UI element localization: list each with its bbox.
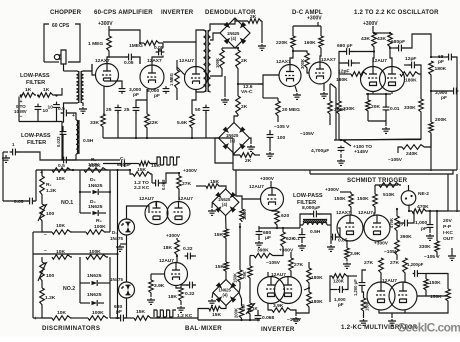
tube V2 12AX7 — [140, 65, 164, 89]
tube V5 12AX7 (dc amp) — [309, 62, 331, 84]
svg-text:20V: 20V — [443, 218, 452, 224]
capacitor 0.05 (stage2) — [154, 43, 164, 55]
tube V4 12AX7 (dc amp) — [279, 65, 301, 87]
capacitor 0.05 (lpf out) — [331, 225, 348, 244]
svg-text:18K: 18K — [168, 294, 177, 300]
svg-text:D₁: D₁ — [112, 230, 117, 235]
svg-text:5.6K: 5.6K — [177, 120, 188, 126]
label 0.033 capacitor — [56, 130, 66, 147]
svg-text:12AU7: 12AU7 — [358, 210, 373, 216]
wire T3 primary top — [196, 30, 204, 42]
svg-text:INVERTER: INVERTER — [261, 326, 295, 333]
wire V1 grid from T1 — [92, 64, 96, 75]
svg-text:+300V: +300V — [260, 176, 275, 182]
resistor 510K — [379, 183, 401, 198]
svg-text:100K: 100K — [88, 162, 100, 168]
wire chopper to transformer — [63, 64, 65, 71]
capacitor 10 (schmidt) — [397, 211, 414, 227]
wire disc1 bottom — [33, 222, 110, 232]
ground bridge1 — [208, 202, 216, 215]
tube V3 12AU7 (inverter top) — [185, 67, 208, 90]
label LOW-PASS FILTER (right) — [293, 193, 323, 211]
label +300V (mixer2) — [166, 233, 181, 239]
resistor 15K (mixer in) — [133, 167, 152, 176]
svg-text:330K: 330K — [419, 244, 431, 250]
label 12AX7 V4 — [276, 59, 291, 65]
svg-text:470K: 470K — [389, 218, 394, 228]
svg-text:1MEG: 1MEG — [129, 43, 143, 49]
svg-text:0.033: 0.033 — [56, 136, 61, 147]
wire disc input top — [36, 169, 130, 171]
wire bridge2 left rail — [215, 138, 233, 170]
choke 0.5H (lpf) — [303, 220, 327, 236]
wire mv right mesh — [405, 274, 448, 314]
svg-text:LOW-PASS: LOW-PASS — [293, 193, 323, 199]
capacitor 100 (dc filter) — [267, 130, 286, 141]
resistor 3.9K (V8 cathode) — [149, 274, 165, 294]
tube V6 12AU7 oscillator (dual) — [361, 67, 405, 92]
resistor 27K (inv2) — [289, 252, 304, 272]
ground V4 cathode — [293, 86, 301, 99]
wire schmidt plates — [351, 208, 375, 216]
wire disc2 top — [33, 253, 118, 255]
resistor 180K (osc right edge) — [429, 61, 447, 76]
svg-text:1N625: 1N625 — [88, 204, 103, 210]
label 12AX7 V1 — [95, 58, 110, 64]
capacitor 3000pF — [119, 86, 142, 98]
svg-text:−: − — [44, 248, 47, 254]
bridge rectifier 1N625 (lower) — [219, 123, 250, 154]
photocell D1 1N475 (upper) — [110, 219, 135, 241]
capacitor 4700pF — [311, 146, 344, 154]
wire demod to dc-amp — [238, 84, 336, 140]
ground demod upper — [258, 21, 266, 50]
svg-text:+300V: +300V — [183, 168, 198, 174]
resistor 100K (disc2 top) — [86, 249, 108, 259]
label 12AU7 osc — [372, 58, 387, 64]
resistor 2K (bridge2 bottom) — [234, 153, 260, 164]
svg-text:I-KC: I-KC — [443, 230, 454, 236]
wire inv2 bottom — [198, 319, 260, 321]
svg-text:1N475: 1N475 — [110, 277, 123, 282]
capacitor 680pF (osc left) — [337, 43, 375, 63]
svg-text:1K: 1K — [25, 87, 32, 93]
capacitor 8000pF (lpf) — [310, 211, 321, 218]
resistor 470K (schmidt h) — [408, 204, 448, 213]
svg-text:4,700μF: 4,700μF — [311, 148, 329, 154]
resistor 330K (osc left tail) — [337, 101, 355, 140]
resistor 15K (bridge2 bottom) — [198, 306, 226, 321]
svg-text:R₁: R₁ — [46, 182, 52, 188]
resistor 360K (V5 out) — [328, 84, 346, 115]
tube V10 schmidt (dual) — [337, 215, 390, 241]
svg-text:20 MEG: 20 MEG — [282, 107, 300, 113]
capacitor 0.22 (lower) — [181, 282, 196, 297]
wire T1 secondary top lead — [83, 64, 92, 71]
svg-text:12AU7: 12AU7 — [372, 58, 387, 64]
ground photocell mid — [116, 244, 127, 251]
svg-text:100: 100 — [46, 211, 54, 217]
svg-text:−105 V: −105 V — [424, 254, 440, 260]
resistor 180K (inv2 right top) — [307, 262, 323, 284]
wire demod junction — [235, 48, 239, 96]
svg-text:10K: 10K — [56, 223, 65, 229]
ground V5 cathode — [320, 84, 328, 99]
wire chopper bottom — [44, 50, 80, 62]
wire T3 primary bottom — [196, 89, 204, 92]
resistor 240K — [402, 134, 431, 157]
svg-text:22K: 22K — [149, 120, 158, 126]
svg-text:15K: 15K — [215, 264, 224, 270]
capacitor 0.22 (upper) — [183, 246, 196, 259]
svg-text:150K: 150K — [429, 280, 441, 286]
svg-text:1N625: 1N625 — [87, 292, 102, 298]
ground lower-left — [2, 155, 10, 162]
resistor 43K (osc left) — [361, 33, 376, 48]
svg-text:240K: 240K — [406, 151, 418, 157]
wire mixer bottom bus — [115, 317, 198, 319]
label INVERTER (bottom) — [261, 326, 295, 333]
ground 680pF inv — [255, 237, 263, 247]
resistor 15K (bridge1 top) — [196, 179, 226, 189]
capacitor 25 (V2 cathode) — [124, 105, 139, 114]
wire inv2 out — [287, 288, 309, 323]
svg-text:−105V: −105V — [300, 131, 315, 137]
svg-text:300K: 300K — [300, 59, 305, 69]
svg-text:D₂: D₂ — [90, 177, 96, 183]
svg-text:1.2K: 1.2K — [46, 188, 57, 194]
svg-text:100K: 100K — [215, 58, 220, 68]
svg-text:1.2K: 1.2K — [45, 295, 56, 301]
svg-text:R₃: R₃ — [96, 218, 102, 224]
wire photocell1 leads — [127, 206, 150, 244]
label SCHMIDT TRIGGER — [347, 177, 408, 184]
wire T3 sec top to bridge — [210, 21, 235, 30]
svg-text:0.22: 0.22 — [183, 246, 193, 252]
label output 20V P-P 1-KC OUT — [443, 218, 454, 242]
resistor 100K (disc1 top right) — [84, 162, 108, 172]
capacitor 680pF (osc right) — [389, 34, 431, 57]
diode D2 1N625 — [80, 177, 110, 195]
svg-text:12AX7: 12AX7 — [147, 58, 162, 64]
label - disc2 — [44, 248, 47, 254]
ground 4700pF — [337, 154, 345, 165]
label 12AU7 (mixer lower) — [159, 258, 174, 264]
capacitor 0.1 (lpf shunt1) — [293, 228, 305, 242]
capacitor 0.05 (V1 out) — [107, 54, 140, 66]
svg-text:120K: 120K — [333, 279, 345, 284]
svg-text:−: − — [44, 232, 47, 238]
squarewave icon (1.2 KC) — [154, 310, 193, 319]
neon NE-2 — [401, 185, 429, 205]
resistor 5.6K (V3 cathode) — [177, 114, 194, 129]
svg-text:680pF: 680pF — [391, 39, 405, 45]
svg-text:SCHMIDT TRIGGER: SCHMIDT TRIGGER — [347, 177, 408, 184]
label +300V (amp) — [98, 21, 113, 27]
chopper vibrator contact — [54, 50, 66, 64]
svg-text:−105V: −105V — [384, 249, 399, 255]
svg-text:VA-C: VA-C — [241, 89, 253, 95]
resistor 2K (lower mid) — [236, 96, 248, 116]
resistor 18K (mixer2 plate) — [163, 238, 179, 256]
label -105V (dc) — [274, 117, 290, 130]
resistor 150K (mv right 1) — [424, 274, 441, 292]
resistor 160K (V5 plate) — [304, 36, 323, 49]
label +100 TO +145V — [342, 140, 372, 155]
resistor 10K (disc2 top) — [52, 249, 72, 259]
label 12AU7 schmidt — [358, 210, 373, 216]
svg-text:100: 100 — [241, 303, 246, 311]
pot 1K (inv2) — [241, 303, 259, 320]
ground inv2 cathode — [292, 313, 300, 323]
svg-text:P-P: P-P — [443, 224, 452, 230]
svg-text:15K: 15K — [136, 309, 145, 315]
svg-text:470K: 470K — [417, 204, 429, 210]
svg-text:−: − — [20, 114, 23, 120]
svg-text:180K: 180K — [405, 78, 417, 84]
svg-text:(4): (4) — [223, 293, 229, 298]
svg-text:0.05: 0.05 — [124, 60, 134, 66]
capacitor 3900pF — [430, 88, 459, 101]
svg-text:620: 620 — [281, 213, 289, 219]
wire amp lower rail — [62, 159, 120, 161]
svg-text:DISCRIMINATORS: DISCRIMINATORS — [42, 325, 100, 332]
photocell 1N475 (lower) — [110, 277, 135, 298]
svg-text:−105V: −105V — [266, 260, 281, 266]
svg-text:0.5: 0.5 — [58, 106, 65, 112]
svg-text:NO.1: NO.1 — [61, 200, 73, 206]
svg-text:100K: 100K — [89, 249, 101, 255]
resistor 1K (input LPF first) — [20, 87, 36, 97]
svg-text:25: 25 — [124, 107, 130, 113]
svg-text:+300V: +300V — [307, 16, 322, 22]
label NO.2 — [63, 286, 75, 292]
svg-text:OUT: OUT — [443, 236, 453, 242]
label CHOPPER — [50, 9, 82, 16]
label 12AU7 V3 — [179, 58, 194, 64]
svg-text:27K: 27K — [182, 181, 191, 187]
svg-text:75K: 75K — [242, 271, 247, 279]
wire input bottom rail — [19, 97, 62, 122]
resistor 620 (V9 cathode) — [272, 211, 289, 227]
capacitor 680pF (bottom) — [114, 304, 134, 321]
wire inverter top +300 — [260, 176, 275, 188]
label -105V inv — [266, 248, 283, 266]
svg-text:+300V: +300V — [363, 21, 378, 27]
ground mv left — [360, 312, 368, 325]
svg-text:680 pF: 680 pF — [337, 43, 353, 49]
label D-C AMPL — [292, 9, 323, 16]
label +300V (mixer) — [183, 168, 198, 174]
label + disc1 — [40, 170, 43, 176]
svg-text:0.1: 0.1 — [293, 236, 300, 242]
bridge 1N625 bal-mixer lower — [213, 272, 239, 306]
resistor 300K (coupling) — [292, 50, 309, 69]
svg-text:+: + — [34, 316, 37, 322]
wire photocell2 leads — [126, 244, 128, 318]
capacitor 12pF (osc fb right) — [404, 56, 421, 74]
svg-text:150K: 150K — [242, 210, 247, 220]
wire V2 cathode — [136, 89, 147, 114]
label 60-CPS AMPLIFIER — [94, 9, 153, 16]
resistor 20 MEG (feedback) — [263, 98, 300, 117]
svg-text:FILTER: FILTER — [26, 80, 45, 86]
wire amp bottom bus — [103, 112, 233, 139]
resistor 180K (inv2 right bottom) — [307, 284, 323, 308]
ground schmidt cap — [426, 230, 434, 241]
label LOW-PASS FILTER (input) — [20, 73, 50, 86]
label 1 MEG vertical (V3 grid) — [169, 70, 179, 90]
label LOW-PASS FILTER (second) — [21, 133, 51, 146]
wire 620 to LPF — [259, 226, 300, 229]
svg-text:60-CPS AMPLIFIER: 60-CPS AMPLIFIER — [94, 9, 153, 16]
svg-text:12AU7: 12AU7 — [179, 58, 194, 64]
svg-text:390K: 390K — [400, 234, 412, 240]
label 1.2-KC MULTIVIBRATOR — [341, 324, 418, 331]
resistor 150K (inv grid) — [240, 203, 247, 222]
wire V5 plate grid — [307, 49, 321, 73]
svg-text:20K: 20K — [371, 104, 380, 110]
svg-text:μF: μF — [265, 235, 271, 241]
svg-text:18K: 18K — [163, 245, 172, 251]
label + disc2 — [34, 316, 37, 322]
svg-text:100K: 100K — [94, 224, 106, 230]
resistor 15K (mid lower) — [215, 239, 228, 272]
ground lpf shunt2 — [327, 237, 335, 251]
svg-text:1,200pF: 1,200pF — [407, 262, 424, 267]
svg-text:27K: 27K — [294, 262, 303, 268]
pot 100 (disc2) — [38, 257, 54, 282]
svg-text:150K: 150K — [334, 196, 346, 202]
svg-text:0.05: 0.05 — [14, 199, 24, 205]
wire long bus y173 right — [310, 170, 453, 174]
svg-text:43K: 43K — [377, 36, 386, 42]
wire disc2 bottom — [33, 306, 88, 318]
svg-text:25: 25 — [106, 107, 112, 113]
ground lpf shunt1 — [298, 240, 306, 250]
wire +300V drop — [109, 26, 140, 42]
label +300V schmidt — [325, 185, 398, 194]
label 12AX7 V2 — [147, 58, 162, 64]
label NO.1 — [61, 200, 73, 206]
resistor 1.2K (disc2) — [40, 282, 56, 306]
wire V1 plate — [107, 52, 109, 64]
wire long bus y170 — [233, 169, 457, 171]
resistor 150K (mv left) — [361, 288, 369, 313]
svg-text:3.9K: 3.9K — [350, 251, 361, 257]
resistor 150K (mv right 2) — [430, 289, 450, 302]
resistor 390K (schmidt) — [395, 232, 412, 256]
wire V2 plate to rail — [140, 56, 163, 66]
svg-text:pF: pF — [438, 59, 444, 65]
label 12.6 VA-C — [241, 84, 253, 95]
svg-text:330K: 330K — [343, 106, 355, 112]
wire osc output right rail — [430, 134, 432, 171]
svg-text:50: 50 — [195, 107, 201, 113]
capacitor 68pF (right edge) — [430, 54, 457, 170]
wire V4 grid from demod — [258, 75, 279, 98]
pot 100 (disc1) — [38, 196, 54, 222]
resistor 330K (schmidt out) — [419, 211, 439, 253]
diode D3 1N625 — [80, 199, 106, 216]
svg-text:510K: 510K — [383, 192, 395, 198]
svg-text:−105 V: −105 V — [274, 124, 290, 130]
label R2 100K — [89, 157, 101, 169]
svg-text:150K: 150K — [430, 294, 442, 300]
svg-text:10: 10 — [398, 222, 403, 227]
svg-text:160K: 160K — [304, 40, 316, 46]
svg-text:CHOPPER: CHOPPER — [50, 9, 82, 16]
svg-text:+300V: +300V — [325, 187, 340, 193]
svg-text:NE-2: NE-2 — [418, 191, 429, 197]
svg-text:pF: pF — [154, 93, 160, 99]
wire LPF to transformer top — [54, 88, 62, 95]
svg-text:1.2 TO 2.2 KC OSCILLATOR: 1.2 TO 2.2 KC OSCILLATOR — [354, 9, 439, 16]
wire schmidt input — [336, 228, 340, 237]
resistor 15K (mid upper) — [214, 216, 228, 239]
svg-text:10K: 10K — [57, 310, 66, 316]
svg-text:BAL·MIXER: BAL·MIXER — [185, 325, 222, 332]
wire disc1 diode box — [79, 170, 111, 232]
wire disc left verticals — [33, 170, 36, 318]
svg-text:−105V: −105V — [287, 317, 302, 323]
wire +300V dcamp rail — [293, 22, 321, 36]
tube V9 12AU7 (inverter top) — [261, 188, 284, 211]
svg-text:390K: 390K — [257, 248, 269, 254]
capacitor 0.5 (coupling upper) — [58, 106, 69, 116]
capacitor 12pF (osc fb left) — [338, 60, 360, 75]
resistor R1 1.2K — [40, 170, 57, 196]
wire inv grid — [236, 170, 261, 203]
resistor 43K (osc right) — [377, 33, 392, 48]
label DEMODULATOR — [205, 9, 256, 16]
svg-text:LOW-PASS: LOW-PASS — [20, 73, 50, 79]
label 12AU7 inv2 — [271, 272, 286, 278]
transformer T2 choke 0.5H — [76, 120, 94, 154]
ground demod lower — [247, 138, 255, 151]
svg-text:pF: pF — [133, 92, 139, 98]
wire osc tail bus — [334, 139, 421, 141]
label 12AU7 mv — [382, 278, 397, 284]
resistor 470K (schmidt v) — [389, 208, 399, 232]
wire right edge drop — [448, 174, 460, 212]
svg-text:150K: 150K — [357, 196, 369, 202]
svg-text:+300V: +300V — [166, 233, 181, 239]
capacitor 1000pF (schmidt out) — [330, 276, 348, 307]
resistor 200K (right) — [429, 76, 447, 134]
svg-text:1K: 1K — [43, 87, 50, 93]
ground V8 cathode — [147, 294, 155, 304]
resistor 220K (V4 plate) — [276, 36, 295, 49]
svg-text:100: 100 — [277, 135, 285, 141]
svg-text:180K: 180K — [311, 299, 323, 305]
svg-text:15K: 15K — [214, 232, 223, 238]
svg-text:100: 100 — [46, 273, 54, 279]
capacitor 0.01 — [383, 105, 400, 112]
capacitor 0.05 (left edge) — [3, 198, 36, 205]
resistor 1MEG (stage2 grid) — [129, 41, 163, 49]
resistor 100K (disc2 bottom) — [88, 310, 108, 320]
svg-text:1,200 μF: 1,200 μF — [353, 279, 358, 296]
svg-text:(4): (4) — [222, 202, 228, 207]
svg-text:200K: 200K — [234, 308, 239, 318]
svg-text:330K: 330K — [404, 105, 416, 111]
label -105V (inv2) — [0, 0, 1, 1]
svg-text:220K: 220K — [276, 40, 288, 46]
resistor 180K (osc grid left) — [336, 72, 367, 101]
resistor 1 MEG (V1 plate) — [88, 36, 111, 52]
svg-text:15K: 15K — [212, 312, 221, 318]
